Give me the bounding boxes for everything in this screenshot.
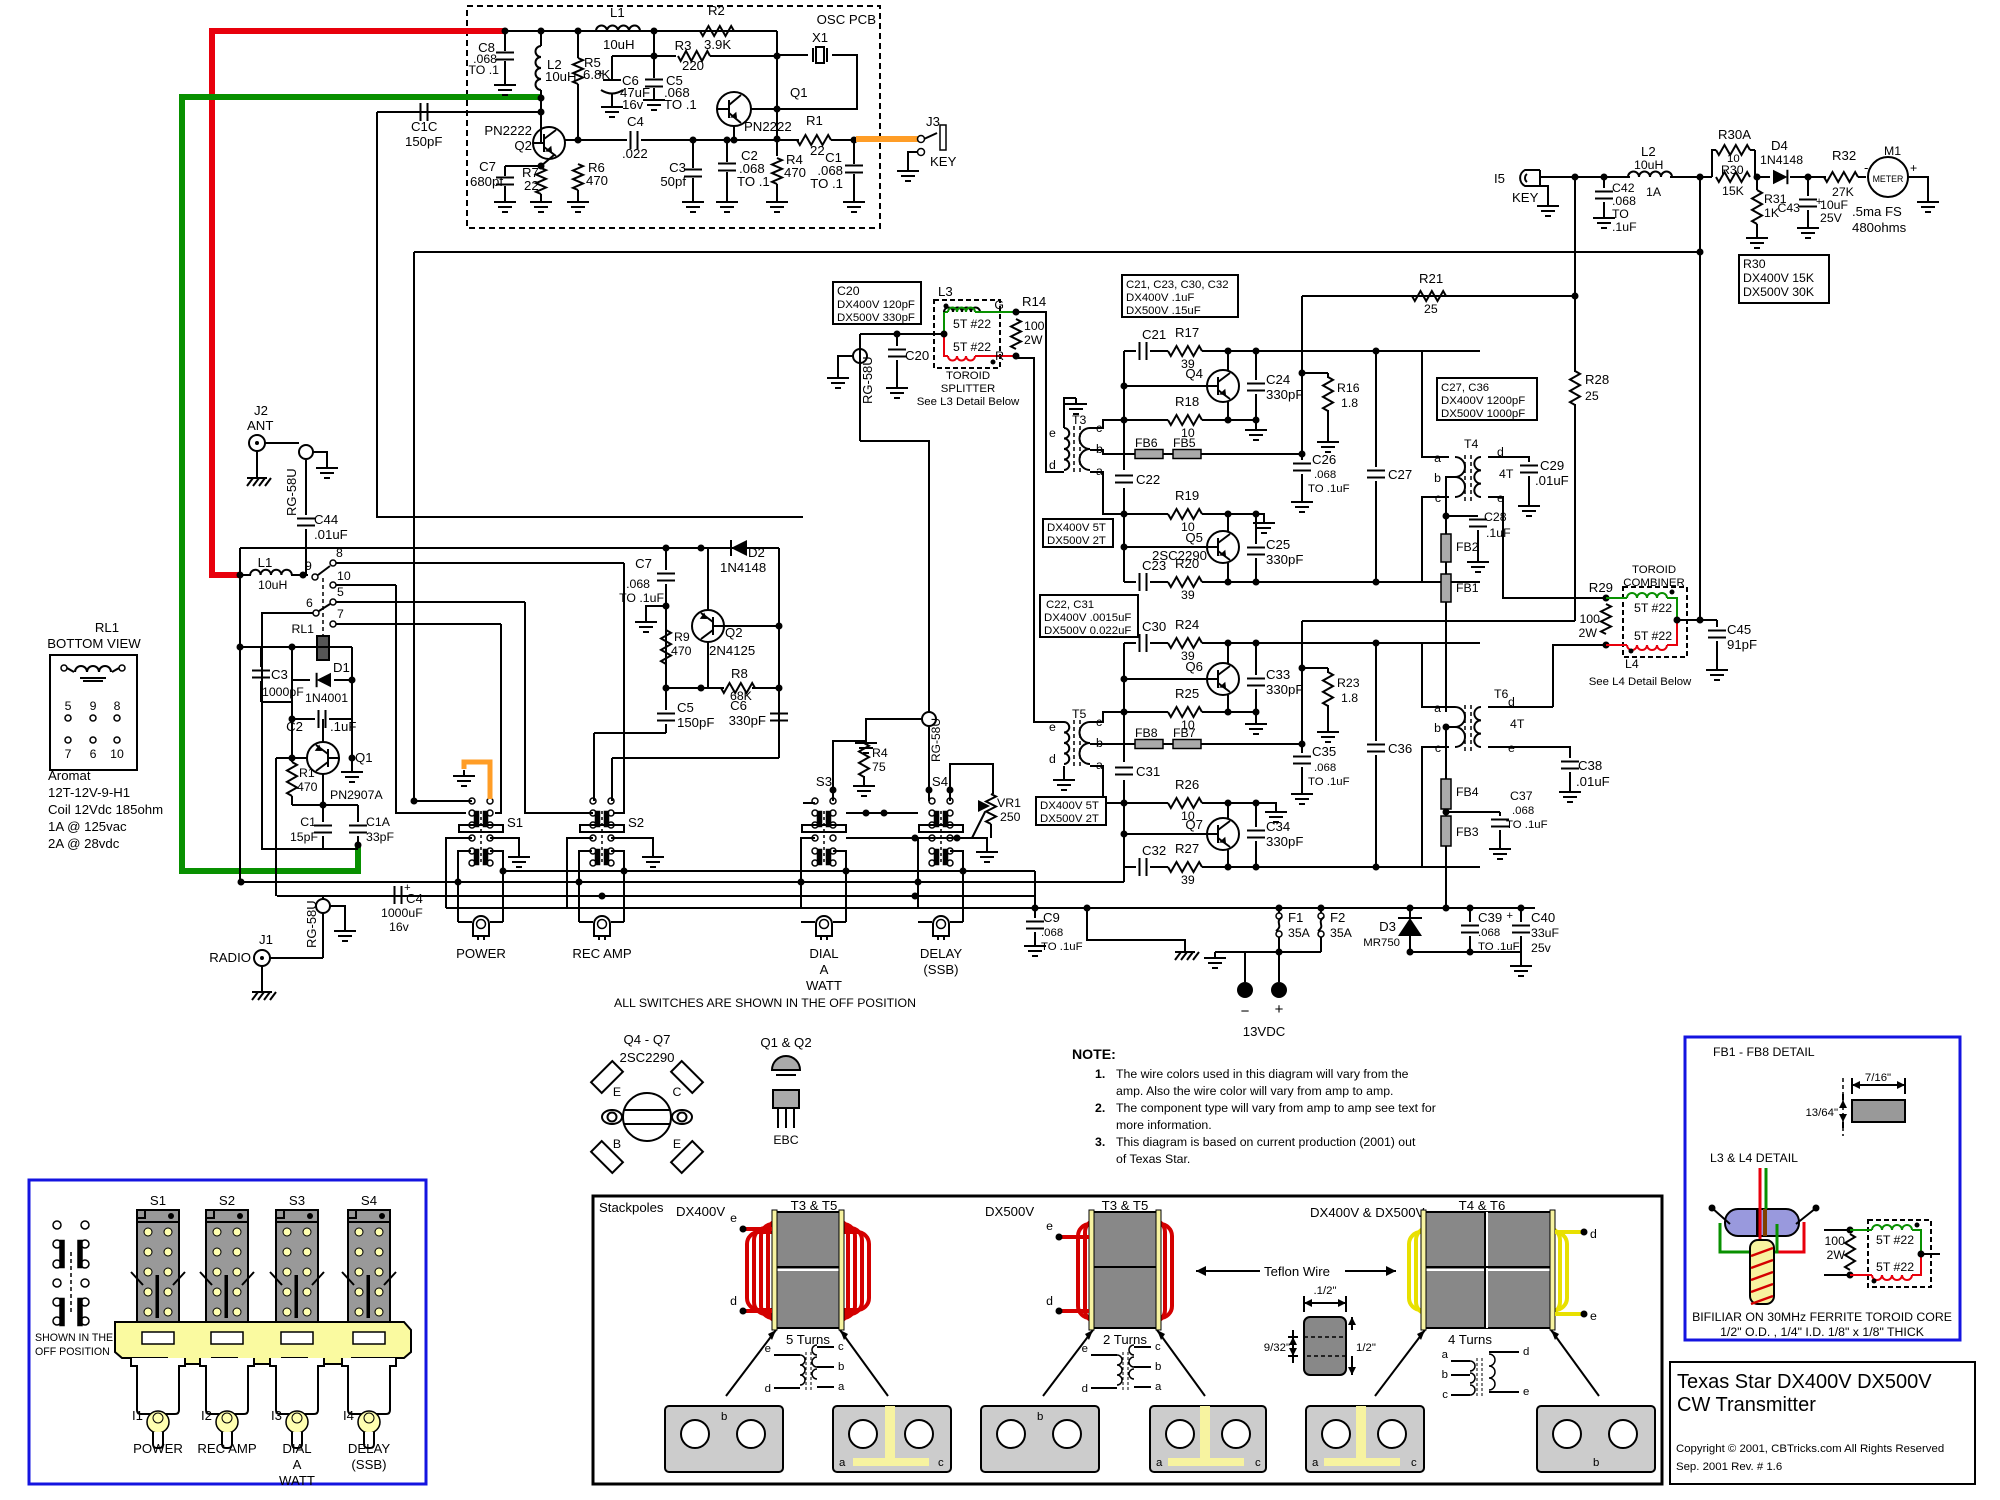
svg-text:100: 100 xyxy=(1824,1234,1845,1248)
wire osc top rail xyxy=(505,30,777,32)
wire relay right rail xyxy=(351,647,353,758)
red wire down xyxy=(1760,1168,1804,1252)
capacitor C32 xyxy=(1139,858,1141,876)
coax shield RG-58U J2 xyxy=(299,445,313,459)
svg-text:5T #22: 5T #22 xyxy=(953,340,991,354)
svg-text:R16: R16 xyxy=(1337,381,1360,395)
ferrite bead FB1 xyxy=(1445,562,1447,574)
svg-text:R27: R27 xyxy=(1175,841,1199,856)
resistor R30A 10 (parallel) xyxy=(1712,150,1716,177)
svg-text:DX400V 120pF: DX400V 120pF xyxy=(837,299,915,311)
capacitor C7 680pf xyxy=(505,165,541,167)
lug plate 1 xyxy=(665,1406,783,1472)
transistor Q5 xyxy=(1207,531,1239,563)
node R30 out xyxy=(1754,174,1761,181)
resistor R4 470 xyxy=(772,158,782,184)
wire R18 row xyxy=(1124,419,1168,421)
info box R30 values xyxy=(1739,255,1829,303)
node bus296 xyxy=(1572,293,1579,300)
svg-text:TO .1uF: TO .1uF xyxy=(1506,819,1548,831)
wire S1 gnd branch xyxy=(490,838,519,851)
svg-text:VR1: VR1 xyxy=(997,796,1021,810)
relay coil RL1 xyxy=(317,636,329,660)
svg-text:ANT: ANT xyxy=(247,418,273,433)
svg-text:7: 7 xyxy=(337,607,344,621)
svg-text:c: c xyxy=(1255,1457,1261,1469)
wire S3-S4 mid link xyxy=(846,837,972,839)
wire x=414 vertical xyxy=(413,252,415,800)
svg-text:5T #22: 5T #22 xyxy=(953,317,991,331)
svg-text:C1C: C1C xyxy=(411,119,438,134)
wire x803 to S3 xyxy=(803,802,815,804)
svg-text:FB2: FB2 xyxy=(1456,540,1479,554)
wire S2 lower-left drop xyxy=(579,851,592,922)
svg-text:S2: S2 xyxy=(628,815,644,830)
svg-text:5 Turns: 5 Turns xyxy=(786,1332,830,1347)
svg-text:WATT: WATT xyxy=(806,978,842,993)
wire orange key line xyxy=(856,136,918,142)
svg-text:amp. Also the wire color will: amp. Also the wire color will vary from … xyxy=(1116,1084,1393,1098)
svg-text:33uF: 33uF xyxy=(1531,926,1560,940)
svg-text:.01uF: .01uF xyxy=(1535,473,1569,488)
wire S1 bottom row xyxy=(503,870,1035,872)
svg-text:E: E xyxy=(673,1137,681,1151)
wire Q2 emitter xyxy=(707,642,709,688)
svg-text:2W: 2W xyxy=(1827,1248,1846,1262)
dimension .1/2 top xyxy=(1303,1296,1305,1312)
wire Q2 collector xyxy=(707,548,709,610)
wire T6 b to FB rail xyxy=(1446,726,1455,728)
FB green coil xyxy=(1850,1229,1872,1231)
svg-text:R20: R20 xyxy=(1175,556,1199,571)
resistor R2 3.9K xyxy=(700,26,734,36)
svg-text:OSC PCB: OSC PCB xyxy=(817,12,877,27)
wire Q6 emitter xyxy=(1227,695,1229,712)
svg-text:G: G xyxy=(994,298,1004,312)
capacitor C4 1000uF xyxy=(394,886,396,904)
svg-text:b: b xyxy=(1593,1457,1599,1469)
wire T6 a stub xyxy=(1449,706,1455,708)
wire pin8 row xyxy=(336,562,624,564)
svg-text:T3 & T5: T3 & T5 xyxy=(791,1198,838,1213)
svg-text:C27, C36: C27, C36 xyxy=(1441,382,1489,394)
svg-text:R: R xyxy=(995,349,1004,363)
wire S2 lower-right drop xyxy=(611,851,624,922)
wire FB3 to bus xyxy=(1445,846,1447,908)
resistor R27 39 xyxy=(1168,862,1202,872)
FB detail blue box xyxy=(1685,1037,1960,1340)
wire left rail upper amp xyxy=(1123,351,1125,470)
svg-text:R23: R23 xyxy=(1337,676,1360,690)
wire S3 bar link xyxy=(846,812,918,814)
ground coax C20 xyxy=(838,356,853,372)
svg-text:Stackpoles: Stackpoles xyxy=(599,1200,664,1215)
resistor R3 220 xyxy=(612,55,676,57)
svg-text:10: 10 xyxy=(110,747,124,761)
wire Q6 collector xyxy=(1227,643,1229,663)
wire C20 feed row xyxy=(860,333,944,335)
wire T5 b to FB row xyxy=(1090,743,1124,745)
svg-text:3.9K: 3.9K xyxy=(704,37,731,52)
svg-text:C23: C23 xyxy=(1142,558,1166,573)
ground C8 xyxy=(504,79,506,85)
wire D2 right rail xyxy=(778,548,780,758)
svg-text:1N4148: 1N4148 xyxy=(720,560,766,575)
ground C45 xyxy=(1716,664,1718,670)
svg-text:b: b xyxy=(1442,1369,1448,1381)
svg-text:5T #22: 5T #22 xyxy=(1876,1260,1914,1274)
svg-text:4T: 4T xyxy=(1499,467,1514,481)
wire S1 lower-left drop xyxy=(458,851,471,922)
svg-text:R8: R8 xyxy=(731,666,748,681)
node C3 junction xyxy=(690,137,697,144)
svg-text:R32: R32 xyxy=(1832,148,1856,163)
svg-text:3.: 3. xyxy=(1095,1135,1105,1149)
svg-text:10uF: 10uF xyxy=(1820,198,1849,212)
svg-text:Q1: Q1 xyxy=(355,750,373,765)
svg-text:L1: L1 xyxy=(610,5,625,20)
wire pin7 row xyxy=(336,623,501,625)
svg-text:d: d xyxy=(1523,1346,1529,1358)
svg-text:ALL SWITCHES ARE SHOWN IN THE: ALL SWITCHES ARE SHOWN IN THE OFF POSITI… xyxy=(614,996,916,1010)
wire S4 lower-right drop xyxy=(950,851,963,922)
wire FB4 rail xyxy=(1445,727,1447,779)
ground C38 xyxy=(1569,786,1571,792)
wire bus x=1700 vertical xyxy=(1699,177,1701,620)
svg-text:D2: D2 xyxy=(748,545,765,560)
capacitor C7 .068 xyxy=(665,548,667,570)
diode D2 1N4148 xyxy=(731,540,747,556)
capacitor C26 .068 TO .1uF xyxy=(1301,454,1303,460)
svg-text:Q2: Q2 xyxy=(725,625,743,640)
wire R28 bottom row xyxy=(1302,620,1575,622)
info box C21 C23 C30 C32 values xyxy=(1122,275,1238,317)
svg-text:13VDC: 13VDC xyxy=(1243,1024,1286,1039)
svg-text:D3: D3 xyxy=(1379,919,1396,934)
wire meter to ground xyxy=(1908,177,1928,196)
svg-text:b: b xyxy=(1037,1411,1043,1423)
svg-text:c: c xyxy=(838,1341,844,1353)
svg-text:Copyright © 2001, CBTricks.com: Copyright © 2001, CBTricks.com All Right… xyxy=(1676,1443,1944,1455)
wire relay row xyxy=(240,646,352,648)
svg-text:X1: X1 xyxy=(812,30,828,45)
svg-text:TO .1: TO .1 xyxy=(737,174,770,189)
svg-text:C1: C1 xyxy=(300,815,316,829)
svg-text:DX400V .1uF: DX400V .1uF xyxy=(1126,292,1194,304)
ground C7 xyxy=(504,196,506,202)
svg-text:e: e xyxy=(1523,1386,1529,1398)
svg-text:FB3: FB3 xyxy=(1456,825,1479,839)
svg-text:METER: METER xyxy=(1873,174,1904,184)
svg-text:2 Turns: 2 Turns xyxy=(1103,1332,1147,1347)
wire C5 row drop to S2 xyxy=(593,733,595,801)
svg-text:1/2" O.D. , 1/4" I.D. 1/8" x 1: 1/2" O.D. , 1/4" I.D. 1/8" x 1/8" THICK xyxy=(1720,1325,1925,1339)
transformer drawing DX400V T3T5 xyxy=(768,1220,848,1322)
wire pin10 drop xyxy=(396,585,466,813)
svg-text:R24: R24 xyxy=(1175,617,1199,632)
FB dashed coil box xyxy=(1868,1220,1931,1287)
capacitor C27 xyxy=(1375,351,1377,467)
capacitor C6 47uF electrolytic xyxy=(611,56,613,80)
wire D2 top row xyxy=(666,547,779,549)
svg-text:C: C xyxy=(673,1085,682,1099)
transistor Q7 xyxy=(1207,818,1239,850)
svg-text:FB6: FB6 xyxy=(1135,436,1158,450)
svg-text:10uH: 10uH xyxy=(603,37,635,52)
svg-text:680pf: 680pf xyxy=(470,174,503,189)
svg-text:C1A: C1A xyxy=(366,815,391,829)
ground C20 xyxy=(896,382,898,388)
svg-text:C39: C39 xyxy=(1478,910,1502,925)
connector J3 KEY xyxy=(918,136,925,143)
wire rail to bus xyxy=(1123,867,1125,882)
wire pin7 drop xyxy=(495,624,501,813)
transistor Q4 xyxy=(1207,370,1239,402)
combiner green winding xyxy=(1606,597,1627,599)
svg-text:470: 470 xyxy=(586,173,608,188)
svg-text:.1uF: .1uF xyxy=(1612,220,1637,234)
ferrite bead FB2 xyxy=(1445,516,1447,534)
svg-text:+: + xyxy=(597,68,604,80)
ground R6 xyxy=(577,196,579,202)
svg-text:KEY: KEY xyxy=(1512,190,1539,205)
relay pinout coil symbol xyxy=(61,665,67,671)
svg-text:C2: C2 xyxy=(286,719,303,734)
svg-text:d: d xyxy=(1049,458,1056,472)
wire S4 mid-left drop xyxy=(918,838,932,908)
ground C35 xyxy=(1301,788,1303,794)
svg-text:C29: C29 xyxy=(1540,458,1564,473)
resistor R8 68K xyxy=(721,683,755,693)
wire R to T5 feed xyxy=(1018,358,1064,722)
switch detail blue box xyxy=(29,1180,426,1484)
wire bottom row lower amp xyxy=(1124,866,1136,868)
svg-text:TO .1uF: TO .1uF xyxy=(1308,483,1350,495)
svg-text:S2: S2 xyxy=(219,1193,235,1208)
svg-text:RG-58U: RG-58U xyxy=(860,356,875,404)
inductor L2 10uH xyxy=(540,31,542,46)
svg-text:L3 & L4 DETAIL: L3 & L4 DETAIL xyxy=(1710,1151,1798,1165)
wire T4 d to C29 xyxy=(1488,457,1529,462)
svg-text:+: + xyxy=(1910,161,1917,175)
resistor R18 10 xyxy=(1168,415,1202,425)
switch detail yellow rail xyxy=(115,1322,411,1364)
svg-text:2.: 2. xyxy=(1095,1101,1105,1115)
ground R19 branch xyxy=(1253,511,1260,518)
svg-text:e: e xyxy=(1046,1219,1053,1233)
svg-text:b: b xyxy=(838,1361,844,1373)
relay contact 10 xyxy=(330,582,336,588)
svg-text:See L4 Detail Below: See L4 Detail Below xyxy=(1589,676,1692,688)
lamp I POWER xyxy=(458,921,472,923)
svg-text:REC AMP: REC AMP xyxy=(197,1441,257,1456)
svg-text:.068: .068 xyxy=(626,577,650,591)
lug plate 3 xyxy=(981,1406,1099,1472)
capacitor C9 .068 TO .1uF xyxy=(1034,907,1036,918)
wire G to T3 feed xyxy=(1016,312,1064,472)
node R1 out xyxy=(831,139,854,141)
wire S2 mid-left drop xyxy=(567,838,593,908)
svg-text:a: a xyxy=(1155,1381,1162,1393)
svg-text:330pF: 330pF xyxy=(1266,682,1303,697)
svg-text:C32: C32 xyxy=(1142,843,1166,858)
transistor Q1 PN2222 xyxy=(717,92,751,126)
wire Q5 collector xyxy=(1227,563,1229,582)
svg-text:PN2222: PN2222 xyxy=(484,123,532,138)
svg-text:E: E xyxy=(613,1085,621,1099)
svg-text:C25: C25 xyxy=(1266,537,1290,552)
svg-text:a: a xyxy=(838,1381,845,1393)
svg-text:SHOWN IN THE: SHOWN IN THE xyxy=(35,1332,113,1344)
svg-text:1A @ 125vac: 1A @ 125vac xyxy=(48,819,127,834)
svg-text:C38: C38 xyxy=(1578,758,1602,773)
svg-text:DX500V 30K: DX500V 30K xyxy=(1743,285,1815,299)
wire riser x1302 upper xyxy=(1301,296,1303,454)
FB red coil xyxy=(1850,1274,1872,1276)
svg-text:C7: C7 xyxy=(479,159,496,174)
svg-text:330pF: 330pF xyxy=(1266,552,1303,567)
wire row582 to T4 c xyxy=(1375,497,1449,582)
wire T3 e ground xyxy=(1064,398,1076,428)
svg-text:a: a xyxy=(839,1457,846,1469)
svg-text:e: e xyxy=(1082,1343,1088,1355)
wire pin8 drop xyxy=(613,563,624,813)
svg-text:e: e xyxy=(765,1343,771,1355)
wire C20 to S4 route xyxy=(860,441,929,712)
capacitor C22 xyxy=(1115,475,1133,477)
wire Q5 emitter xyxy=(1227,514,1229,531)
svg-text:C22: C22 xyxy=(1136,472,1160,487)
resistor R26 10 xyxy=(1168,798,1202,808)
svg-text:R26: R26 xyxy=(1175,777,1199,792)
lamp I5 KEY xyxy=(1520,170,1540,186)
wire x240 vertical xyxy=(239,548,241,882)
wire T5 c to R25 row xyxy=(1090,712,1124,722)
svg-text:COMBINER: COMBINER xyxy=(1623,577,1684,589)
capacitor C33 330pF xyxy=(1255,643,1257,675)
wire R29 bottom to T6 d xyxy=(1553,645,1606,707)
svg-text:DX400V & DX500V: DX400V & DX500V xyxy=(1310,1205,1425,1220)
svg-text:R30: R30 xyxy=(1721,163,1744,177)
ferrite bead FB4 xyxy=(1441,779,1451,809)
combiner red winding xyxy=(1606,644,1627,646)
svg-text:C37: C37 xyxy=(1510,789,1533,803)
svg-text:T4 & T6: T4 & T6 xyxy=(1459,1198,1506,1213)
wire relay left rail xyxy=(291,647,293,762)
wire T5 d ground xyxy=(1063,766,1065,774)
svg-text:S4: S4 xyxy=(361,1193,377,1208)
lamp I DIAL A WATT xyxy=(801,921,815,923)
svg-text:1.8: 1.8 xyxy=(1341,396,1358,410)
svg-text:DX500V 0.022uF: DX500V 0.022uF xyxy=(1044,625,1131,637)
svg-text:5: 5 xyxy=(65,699,72,713)
svg-text:TO .1: TO .1 xyxy=(468,63,499,77)
svg-text:I3: I3 xyxy=(271,1408,282,1423)
svg-text:C35: C35 xyxy=(1312,744,1336,759)
svg-text:e: e xyxy=(1049,720,1056,734)
switch detail toggle bodies xyxy=(131,1358,185,1414)
svg-text:This diagram is based on curre: This diagram is based on current product… xyxy=(1116,1135,1416,1149)
svg-text:.068: .068 xyxy=(1041,927,1063,939)
toroid core purple xyxy=(1725,1209,1799,1236)
svg-text:L3: L3 xyxy=(938,284,953,299)
svg-text:DX400V 5T: DX400V 5T xyxy=(1040,800,1099,812)
wire FB row to C26 xyxy=(1201,453,1302,455)
svg-text:R4: R4 xyxy=(872,746,888,760)
svg-text:Coil 12Vdc 185ohm: Coil 12Vdc 185ohm xyxy=(48,802,163,817)
svg-text:Teflon Wire: Teflon Wire xyxy=(1264,1264,1330,1279)
toroid stripes xyxy=(1756,1209,1760,1236)
svg-text:C9: C9 xyxy=(1043,910,1060,925)
svg-text:NOTE:: NOTE: xyxy=(1072,1046,1116,1062)
wire Q5 base row xyxy=(1124,546,1207,548)
svg-text:15K: 15K xyxy=(1722,184,1745,198)
ground C40 xyxy=(1520,952,1522,960)
capacitor C37 .068 xyxy=(1446,811,1500,813)
capacitor C29 .01uF xyxy=(1520,465,1538,467)
winding stubs e d xyxy=(744,1227,772,1231)
svg-text:.068: .068 xyxy=(1314,469,1336,481)
wire R8 row xyxy=(666,687,724,689)
wire R21 row xyxy=(1302,295,1575,297)
svg-text:TO .1: TO .1 xyxy=(664,97,697,112)
svg-text:b: b xyxy=(1434,721,1441,735)
svg-text:150pF: 150pF xyxy=(405,134,442,149)
resistor R20 39 xyxy=(1168,577,1202,587)
wire S1 mid-left drop xyxy=(446,838,472,908)
ground fuse row xyxy=(1214,952,1216,958)
svg-text:1N4001: 1N4001 xyxy=(305,691,348,705)
splitter green winding xyxy=(944,312,948,334)
svg-text:DX500V .15uF: DX500V .15uF xyxy=(1126,305,1201,317)
relay contact arm 9-8 xyxy=(312,574,318,580)
svg-text:R30A: R30A xyxy=(1718,127,1751,142)
wire I5 to ground xyxy=(1540,186,1548,200)
ground C43 xyxy=(1807,222,1809,228)
svg-text:OFF POSITION: OFF POSITION xyxy=(35,1346,110,1358)
svg-text:A: A xyxy=(820,962,829,977)
svg-text:d: d xyxy=(730,1294,737,1308)
svg-text:S3: S3 xyxy=(816,774,832,789)
svg-text:C4: C4 xyxy=(627,114,644,129)
svg-text:330pF: 330pF xyxy=(729,713,766,728)
wire T3 c to R18 row xyxy=(1090,420,1124,428)
ferrite bead FB5 xyxy=(1163,453,1173,455)
wire main bus y=252 xyxy=(414,251,1700,253)
svg-text:330pF: 330pF xyxy=(1266,834,1303,849)
svg-text:Sep. 2001 Rev. # 1.6: Sep. 2001 Rev. # 1.6 xyxy=(1676,1461,1782,1473)
toroid splitter L3 dashed box xyxy=(934,300,1000,368)
svg-text:Q1: Q1 xyxy=(790,85,808,100)
resistor R23 1.8 xyxy=(1302,667,1328,669)
capacitor C45 91pF xyxy=(1716,620,1718,627)
coax shield RG-58U C20 xyxy=(853,349,867,363)
transistor Q2 2N4125 xyxy=(692,610,724,642)
wire J2 to coax xyxy=(265,442,299,444)
svg-text:10: 10 xyxy=(337,569,351,583)
svg-text:4 Turns: 4 Turns xyxy=(1448,1332,1492,1347)
wire VR1 wiper xyxy=(972,812,985,838)
resistor R5 6.8K xyxy=(577,31,579,58)
svg-text:b: b xyxy=(1155,1361,1161,1373)
wire VCC red feed xyxy=(212,31,505,575)
svg-text:d: d xyxy=(1590,1227,1597,1241)
resistor R25 10 xyxy=(1168,707,1202,717)
svg-text:CW Transmitter: CW Transmitter xyxy=(1677,1394,1816,1416)
OSC PCB dashed enclosure xyxy=(467,6,880,228)
svg-text:2W: 2W xyxy=(1024,333,1043,347)
svg-text:Aromat: Aromat xyxy=(48,768,91,783)
